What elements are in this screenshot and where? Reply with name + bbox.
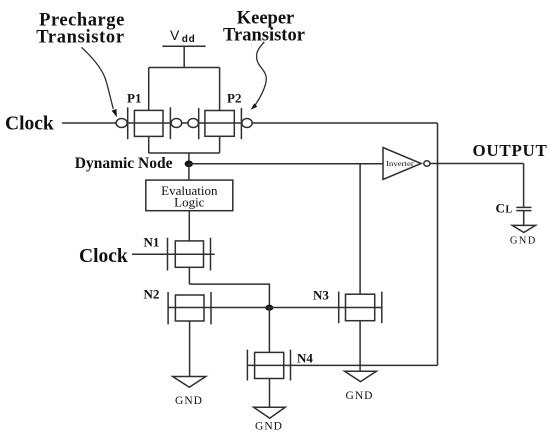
transistor N4 bbox=[247, 350, 290, 381]
annotation arrow to P2 bbox=[251, 42, 267, 110]
block Evaluation Logic bbox=[146, 180, 233, 211]
power Vdd label bbox=[170, 27, 195, 45]
annotation label Keeper Transistor bbox=[223, 9, 305, 46]
junction N2/N3/N4 node bbox=[265, 305, 273, 311]
svg-text:GND: GND bbox=[175, 395, 203, 407]
wire Vdd stem bbox=[183, 46, 185, 67]
svg-text:GND: GND bbox=[255, 421, 283, 433]
svg-text:dd: dd bbox=[182, 34, 196, 45]
wire output down to CL bbox=[523, 164, 525, 207]
svg-text:GND: GND bbox=[510, 236, 537, 247]
ground under N2 bbox=[173, 377, 206, 408]
wire N3 drain to dynamic node line bbox=[359, 164, 361, 295]
wire N1 source down bbox=[188, 267, 190, 284]
capacitor CL bbox=[516, 207, 531, 210]
svg-text:N3: N3 bbox=[313, 288, 329, 303]
svg-text:GND: GND bbox=[346, 390, 374, 402]
wire evaluation logic to N1 drain bbox=[188, 211, 190, 241]
wire dynamic node to inverter input bbox=[189, 163, 383, 165]
wire precharge rail bbox=[149, 67, 220, 69]
ground under N3 bbox=[345, 371, 377, 402]
svg-text:N2: N2 bbox=[144, 287, 160, 302]
inverter U1 bbox=[383, 148, 430, 180]
wire P1 drain down bbox=[148, 136, 150, 153]
svg-text:C: C bbox=[496, 201, 505, 216]
svg-text:Transistor: Transistor bbox=[36, 28, 124, 48]
svg-text:N4: N4 bbox=[297, 351, 313, 366]
annotation arrow to P1 bbox=[82, 47, 117, 117]
wire rail to dynamic node bbox=[188, 153, 190, 164]
wire CL to ground bbox=[523, 211, 525, 226]
svg-text:Clock: Clock bbox=[5, 114, 54, 135]
svg-text:Clock: Clock bbox=[79, 246, 128, 267]
power Vdd bar bbox=[162, 45, 205, 47]
wire N3 source to ground bbox=[359, 321, 361, 372]
svg-text:Inverter: Inverter bbox=[386, 159, 414, 168]
transistor P1 bbox=[116, 107, 182, 139]
transistor P2 bbox=[188, 108, 252, 139]
transistor N2 bbox=[168, 292, 211, 325]
ground under CL bbox=[510, 225, 537, 246]
wire P2 drain down bbox=[219, 136, 221, 153]
wire Clock to N1 gate bbox=[132, 253, 168, 255]
annotation label Precharge Transistor bbox=[36, 11, 125, 48]
svg-text:Logic: Logic bbox=[174, 194, 205, 209]
wire P2 gate bubble to feedback corner bbox=[252, 122, 437, 124]
ground under N4 bbox=[254, 407, 286, 432]
svg-text:OUTPUT: OUTPUT bbox=[473, 141, 548, 160]
svg-text:P2: P2 bbox=[227, 90, 241, 105]
wire between P1 and P2 gate bubbles bbox=[182, 122, 188, 124]
svg-text:L: L bbox=[506, 205, 513, 216]
svg-text:P1: P1 bbox=[127, 91, 141, 106]
transistor N1 bbox=[168, 238, 215, 271]
svg-text:N1: N1 bbox=[144, 234, 160, 249]
svg-text:Dynamic Node: Dynamic Node bbox=[75, 155, 173, 172]
wire N4 gate to feedback bbox=[247, 364, 437, 366]
wire N2 source to ground bbox=[189, 321, 191, 377]
wire P2 source to rail bbox=[219, 68, 221, 111]
wire N4 drain to junction bbox=[268, 308, 270, 353]
transistor N3 bbox=[339, 292, 382, 324]
wire dynamic rail bbox=[149, 152, 220, 154]
wire N2 gate to N3 gate through junction bbox=[168, 307, 382, 309]
wire N4 source to ground bbox=[269, 379, 271, 408]
wire jog N1 to junction bbox=[189, 284, 269, 305]
capacitor CL label bbox=[496, 201, 513, 216]
wire inverter output bbox=[430, 163, 524, 165]
wire P1 source to rail bbox=[148, 68, 150, 111]
wire Clock to P1 gate bubble bbox=[62, 122, 116, 124]
wire feedback vertical to N4 gate bbox=[437, 123, 439, 365]
wire dynamic node to evaluation logic bbox=[188, 164, 190, 181]
junction dynamic node bbox=[185, 161, 193, 168]
svg-text:V: V bbox=[170, 27, 180, 43]
